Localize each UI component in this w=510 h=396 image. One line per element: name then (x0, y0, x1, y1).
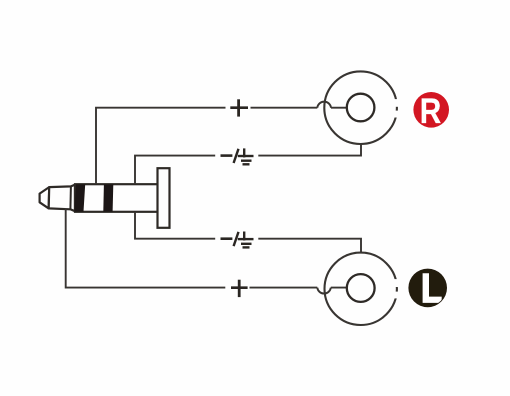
minus dash (R return) (221, 154, 233, 157)
wire: tip contact to L center pin (66, 209, 347, 288)
RCA jack R: outer shell circle (324, 71, 399, 144)
connector J1: insulator ring 2 (103, 184, 113, 212)
badge R (red) (413, 92, 449, 131)
polarity symbol + (left channel) (231, 280, 248, 297)
ground symbol (L return) (238, 232, 254, 248)
connector J1: insulator ring 1 (74, 184, 85, 212)
connector J1: plug shaft (sleeve) (75, 184, 158, 212)
RCA jack L: outer shell circle (325, 253, 400, 325)
svg-text:R: R (420, 92, 442, 131)
wire hop over R shell (317, 102, 331, 108)
wire: sleeve to L shell (ground return) (135, 212, 361, 253)
slash (R return) (234, 149, 239, 163)
connector J1: tip contact body (49, 185, 75, 212)
wire: sleeve to R shell (ground return) (135, 144, 361, 184)
ground symbol (R return) (238, 148, 254, 164)
connector J1: body flange (158, 168, 170, 228)
minus dash (L return) (221, 237, 233, 240)
slash (L return) (234, 232, 239, 246)
polarity symbol + (right channel) (230, 99, 248, 116)
wire hop under L shell (317, 288, 331, 294)
wire: ring contact to R center pin (96, 108, 347, 184)
RCA jack R: center pin circle (347, 94, 375, 122)
RCA jack L: center pin circle (347, 274, 375, 302)
badge L (black) (408, 269, 447, 308)
connector J1: 3.5mm TRS plug tip cone (40, 187, 50, 208)
